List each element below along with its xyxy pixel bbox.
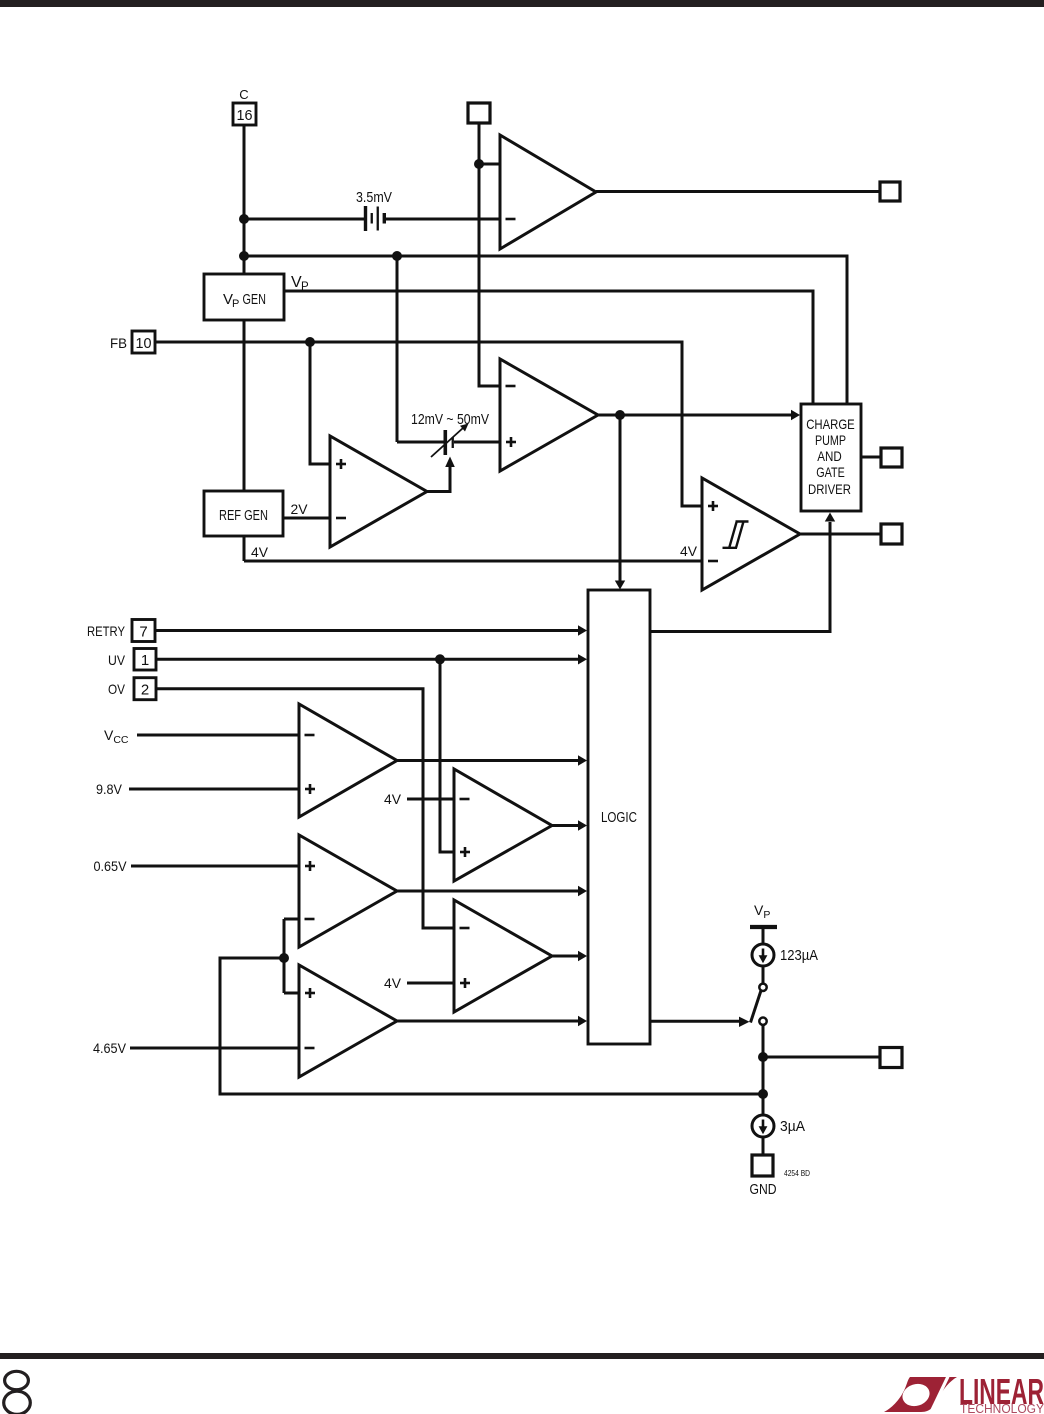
svg-text:LOGIC: LOGIC	[601, 809, 637, 826]
wire A8 output to LOGIC	[552, 824, 579, 827]
variable battery 12mV ~ 50mV	[444, 430, 454, 455]
wire 4V rail to hysteresis inverting input	[244, 560, 702, 563]
node dot sense/pad	[758, 1052, 768, 1062]
wire A6 - input stub	[284, 918, 299, 921]
op-amp U2 (main comparator)	[500, 359, 598, 471]
node dot U2 output	[615, 410, 625, 420]
wire UV branch to comparator A8 + input	[440, 659, 454, 852]
wire RETRY to LOGIC	[155, 629, 579, 632]
svg-text:123µA: 123µA	[780, 947, 818, 964]
wire A7 output to LOGIC	[397, 1020, 579, 1023]
wire VP bar to current source	[762, 929, 765, 944]
wire switch to sense node	[762, 1025, 765, 1115]
bottom footer bar	[0, 1353, 1044, 1359]
wire stub to U1 top input	[479, 163, 500, 166]
node dot sense/feedback	[758, 1089, 768, 1099]
wire bracket to sense node	[220, 958, 763, 1094]
arrowhead up into variable source	[445, 457, 455, 468]
wire U4 output to pad	[800, 533, 881, 536]
wire 4V to A8 - input	[407, 798, 454, 801]
svg-text:P: P	[232, 298, 239, 310]
wire pin16 down to VP GEN	[243, 125, 246, 274]
wire pad down to U2 inverting input	[479, 123, 500, 386]
wire A6 output to LOGIC	[397, 890, 579, 893]
svg-text:4254 BD: 4254 BD	[784, 1168, 810, 1178]
wire 3uA to GND pad	[762, 1137, 765, 1155]
wire 3.5mV left segment	[244, 218, 364, 221]
svg-text:4.65V: 4.65V	[93, 1040, 127, 1056]
wire REF GEN down	[243, 536, 246, 561]
svg-text:4V: 4V	[384, 975, 402, 991]
svg-text:UV: UV	[108, 652, 126, 668]
REF GEN block	[204, 491, 283, 536]
charge pump block	[801, 404, 861, 511]
svg-text:2V: 2V	[291, 501, 309, 517]
pin 7 box	[132, 620, 155, 642]
pin 2 box	[134, 678, 156, 700]
svg-text:DRIVER: DRIVER	[808, 481, 851, 497]
top header bar	[0, 0, 1044, 7]
wire UV to LOGIC	[156, 658, 579, 661]
switch S1	[759, 984, 766, 991]
svg-text:PUMP: PUMP	[815, 432, 846, 448]
wire VP GEN to REF GEN	[243, 320, 246, 491]
LOGIC block	[588, 590, 650, 1044]
svg-text:4V: 4V	[680, 543, 698, 559]
current source 123uA	[752, 944, 774, 966]
wire LOGIC to switch	[650, 1020, 740, 1023]
svg-text:4V: 4V	[251, 544, 269, 560]
svg-text:10: 10	[136, 335, 152, 352]
svg-text:3µA: 3µA	[780, 1118, 805, 1135]
wire 9.8V to A5 + input	[129, 788, 299, 791]
page number 8	[4, 1371, 31, 1414]
svg-text:FB: FB	[110, 335, 127, 351]
svg-text:TECHNOLOGY: TECHNOLOGY	[960, 1402, 1044, 1414]
arrowhead down into LOGIC	[615, 581, 625, 590]
current source 3uA	[752, 1115, 774, 1137]
wire 2V to error amp inverting input	[283, 517, 330, 520]
wire LOGIC to charge pump	[650, 522, 830, 632]
pin 1 box	[134, 649, 156, 671]
wire bracket A6-/A7+	[283, 919, 286, 993]
wire variable battery to U2 + input	[454, 441, 500, 444]
wire 3.5mV right segment to U1 inverting input	[386, 218, 500, 221]
arrowhead into charge pump	[791, 410, 800, 420]
svg-text:GEN: GEN	[243, 291, 267, 308]
wire to variable battery	[397, 441, 444, 444]
op-amp U1 (top comparator)	[500, 135, 596, 249]
VP GEN block	[204, 274, 284, 320]
svg-text:0.65V: 0.65V	[94, 858, 128, 874]
svg-text:12mV ~ 50mV: 12mV ~ 50mV	[411, 411, 489, 428]
svg-text:16: 16	[237, 107, 253, 124]
svg-text:CHARGE: CHARGE	[806, 416, 855, 432]
comparator A9 (OV)	[454, 900, 552, 1012]
pad square top (pin)	[468, 103, 490, 123]
node dot bracket	[279, 953, 289, 963]
pad square GND	[752, 1155, 773, 1176]
node dot C/bus	[239, 251, 249, 261]
pad square sense	[880, 1048, 902, 1068]
svg-text:9.8V: 9.8V	[96, 781, 123, 797]
svg-text:VP: VP	[754, 902, 770, 921]
wire 4V to A9 + input	[407, 982, 454, 985]
wire 4.65V to A7 - input	[130, 1047, 299, 1050]
Linear Technology logo	[884, 1371, 1044, 1414]
wire U2 output to charge pump	[598, 414, 792, 417]
wire FB to hysteresis comparator	[155, 342, 702, 506]
svg-text:RETRY: RETRY	[87, 623, 126, 639]
pin 16 box	[233, 103, 256, 125]
wire FB branch to error amp	[310, 342, 330, 464]
svg-text:VCC: VCC	[104, 727, 129, 746]
node dot rail/12mV branch	[392, 251, 402, 261]
svg-text:OV: OV	[108, 681, 126, 697]
wire bus node to charge pump (top rail)	[244, 256, 847, 404]
pad square U4 output	[881, 524, 902, 544]
svg-text:4V: 4V	[384, 791, 402, 807]
svg-text:AND: AND	[817, 448, 842, 464]
pad square U1 output	[880, 182, 900, 201]
wire A5 output to LOGIC	[397, 759, 579, 762]
wire U2 output down to LOGIC	[619, 415, 622, 581]
wire A7 + input stub	[284, 992, 299, 995]
svg-text:GND: GND	[750, 1181, 777, 1198]
node dot UV branch	[435, 654, 445, 664]
wire 12mV branch down	[396, 256, 399, 442]
wire U3 output to variable source control	[427, 467, 450, 492]
supply VP bar	[750, 925, 777, 929]
comparator A8 (UV)	[454, 769, 552, 881]
svg-text:C: C	[239, 87, 248, 102]
battery 3.5mV	[364, 206, 386, 231]
svg-text:7: 7	[139, 624, 147, 641]
pin 10 box	[132, 331, 155, 353]
wire VP GEN output to charge pump	[284, 291, 813, 404]
comparator A5 (VCC)	[299, 704, 397, 817]
node dot C/3.5mV	[239, 214, 249, 224]
svg-text:GATE: GATE	[816, 464, 845, 480]
svg-text:REF GEN: REF GEN	[219, 507, 268, 524]
svg-text:3.5mV: 3.5mV	[356, 189, 392, 206]
svg-text:2: 2	[141, 682, 149, 699]
comparator A6 (0.65V)	[299, 835, 397, 947]
op-amp U3 error amp	[330, 436, 427, 547]
comparator U4 hysteresis	[702, 478, 800, 590]
wire OV to comparator A9 - input	[156, 689, 454, 928]
comparator A7 (4.65V)	[299, 965, 397, 1077]
wire current source to switch	[762, 966, 765, 983]
pad square charge pump output	[881, 448, 902, 467]
wire sense node to pad	[763, 1056, 880, 1059]
wire U1 output to right pad	[596, 190, 880, 193]
arrowhead at switch	[739, 1017, 750, 1027]
node dot FB branch	[305, 337, 315, 347]
wire 0.65V to A6 + input	[131, 865, 299, 868]
wire charge pump to pad	[861, 456, 881, 459]
node dot pad/U1 input	[474, 159, 484, 169]
hysteresis symbol	[723, 522, 749, 548]
arrowhead up into charge pump	[825, 513, 835, 522]
wire A9 output to LOGIC	[552, 955, 579, 958]
svg-text:1: 1	[141, 652, 149, 669]
wire VCC to comparator A5 - input	[137, 734, 299, 737]
